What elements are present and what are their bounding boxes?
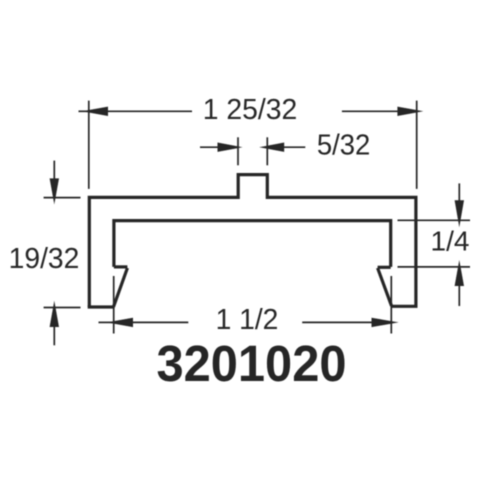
lower dim line (up arrow) (53, 326, 55, 345)
dim line left segment (131, 321, 188, 323)
dimension: 1 25/32 overall width (79, 101, 424, 189)
dim line tail past left arrow tip (99, 321, 113, 323)
arrowhead pointing right (372, 318, 399, 327)
svg-text:1 1/2: 1 1/2 (216, 304, 279, 336)
left leg bottom (88, 305, 115, 308)
right barb jut (378, 266, 391, 269)
dimension: 1 1/2 inner width (bottom) (99, 276, 399, 334)
right barb diagonal (378, 268, 392, 306)
extension line right of tab (266, 137, 268, 165)
left barb jut (114, 265, 128, 268)
arrowhead up (455, 260, 464, 286)
inner channel top and walls (114, 221, 391, 267)
dim line tail past left arrow tip (79, 110, 93, 112)
arrowhead down (455, 200, 464, 227)
upper dim line (down arrow) (458, 183, 460, 202)
dim line right segment (342, 110, 399, 112)
arrowhead left (82, 107, 108, 116)
dim line left segment (96, 110, 192, 112)
lower dim line (up arrow) (458, 285, 460, 306)
dim line right segment (302, 321, 373, 323)
extension line top (398, 219, 471, 221)
extension line bottom (398, 266, 471, 268)
dim line left (200, 146, 219, 148)
upper dim line (down arrow) (53, 161, 55, 180)
dimension: 19/32 height (left) (44, 161, 81, 346)
extension line top (44, 197, 81, 199)
extension line right (416, 101, 418, 189)
profile outline (outer), channel with center tab (88, 175, 418, 307)
arrowhead pointing left (107, 318, 133, 327)
extension line bottom (44, 307, 81, 309)
dimension: 5/32 tab width (200, 137, 305, 165)
extension line right (390, 276, 392, 334)
svg-text:19/32: 19/32 (9, 243, 80, 275)
extension line left of tab (237, 137, 239, 165)
dim line right (283, 146, 305, 148)
outer top surface with tab (89, 175, 416, 307)
right leg bottom (392, 305, 418, 308)
arrowhead down (50, 178, 59, 204)
svg-text:1 25/32: 1 25/32 (203, 94, 298, 126)
svg-text:5/32: 5/32 (317, 128, 370, 161)
left barb diagonal (114, 268, 128, 307)
extension line left (113, 276, 115, 334)
arrowhead right (397, 107, 423, 116)
arrowhead pointing right at tab left (218, 143, 243, 152)
svg-text:3201020: 3201020 (157, 335, 347, 392)
svg-text:1/4: 1/4 (431, 226, 470, 257)
arrowhead up (50, 301, 59, 327)
extension line left (88, 101, 90, 189)
arrowhead pointing left at tab right (259, 143, 284, 152)
dimension: 1/4 (right) (398, 183, 471, 306)
